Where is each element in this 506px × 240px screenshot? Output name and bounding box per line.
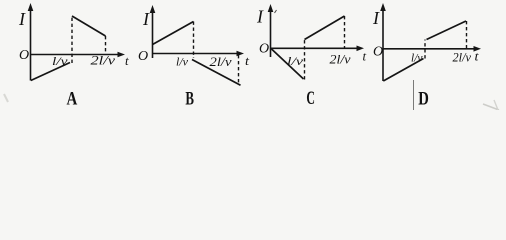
I-axis B xyxy=(152,8,154,58)
t-axis D arrowhead xyxy=(474,46,482,52)
t-axis C arrowhead xyxy=(357,46,365,52)
svg-text:O: O xyxy=(259,42,269,57)
svg-text:2l/v: 2l/v xyxy=(91,53,116,68)
dashed drop at 2l/v (A) xyxy=(105,36,107,55)
svg-text:C: C xyxy=(306,88,315,109)
t-axis D xyxy=(383,48,477,50)
curve A: rising ramp below axis 0..l/v xyxy=(31,63,70,81)
I-axis B arrowhead xyxy=(150,5,156,13)
svg-text:t: t xyxy=(363,49,367,64)
I-axis A arrowhead xyxy=(28,3,34,11)
svg-text:t: t xyxy=(125,53,129,68)
tick mark right of C arrowhead xyxy=(275,10,277,13)
svg-text:2l/v: 2l/v xyxy=(453,50,472,64)
dashed jump at l/v (B) xyxy=(193,22,195,59)
svg-text:l/v: l/v xyxy=(52,54,68,68)
curve C: rising segment l/v..2l/v above axis xyxy=(305,16,345,40)
curve B: declining segment l/v..2l/v below axis xyxy=(192,60,241,86)
faint diagonal scan mark bottom-right xyxy=(483,104,499,110)
curve C: declining ramp 0..l/v below axis xyxy=(271,49,304,80)
svg-text:l/v: l/v xyxy=(411,50,423,64)
dashed drop at 2l/v (B) xyxy=(238,55,240,85)
curve D: rising segment l/v..2l/v above axis xyxy=(427,21,467,40)
stray scan rule left of option D xyxy=(413,80,415,110)
svg-text:I: I xyxy=(18,9,26,29)
t-axis A xyxy=(31,54,122,56)
svg-text:O: O xyxy=(373,45,383,60)
I-axis C arrowhead xyxy=(268,4,274,12)
t-axis B arrowhead xyxy=(237,51,245,57)
svg-text:t: t xyxy=(245,53,249,68)
dashed drop at 2l/v (D) xyxy=(466,21,468,49)
dashed jump at l/v (D) xyxy=(424,40,426,59)
I-axis C xyxy=(270,7,272,57)
dashed jump at l/v (C) xyxy=(304,40,306,80)
svg-text:2l/v: 2l/v xyxy=(210,54,232,69)
faint smudge bottom-left xyxy=(4,94,8,102)
svg-text:O: O xyxy=(19,48,29,63)
svg-text:I: I xyxy=(142,9,150,29)
I-axis D arrowhead xyxy=(380,3,386,11)
dashed jump at l/v (A) xyxy=(71,16,73,63)
faint scan streak near bottom-right xyxy=(494,100,498,110)
curve D: rising ramp below axis 0..l/v xyxy=(383,59,423,82)
I-axis A xyxy=(30,6,32,81)
svg-text:l/v: l/v xyxy=(176,55,189,69)
svg-text:2l/v: 2l/v xyxy=(330,52,351,67)
svg-text:I: I xyxy=(256,7,264,27)
t-axis B xyxy=(153,53,241,55)
dashed drop at 2l/v (C) xyxy=(344,16,346,48)
svg-text:D: D xyxy=(418,88,429,109)
svg-text:O: O xyxy=(138,49,148,64)
curve B: rising ramp 0..l/v above axis xyxy=(153,22,194,45)
svg-text:t: t xyxy=(475,49,479,64)
t-axis C xyxy=(271,47,361,49)
svg-text:A: A xyxy=(67,89,78,110)
t-axis A arrowhead xyxy=(118,52,126,58)
curve A: declining segment l/v..2l/v above axis xyxy=(72,16,106,36)
svg-text:I: I xyxy=(372,8,380,28)
svg-text:l/v: l/v xyxy=(287,54,304,68)
I-axis D xyxy=(382,6,384,81)
svg-text:B: B xyxy=(185,89,194,110)
